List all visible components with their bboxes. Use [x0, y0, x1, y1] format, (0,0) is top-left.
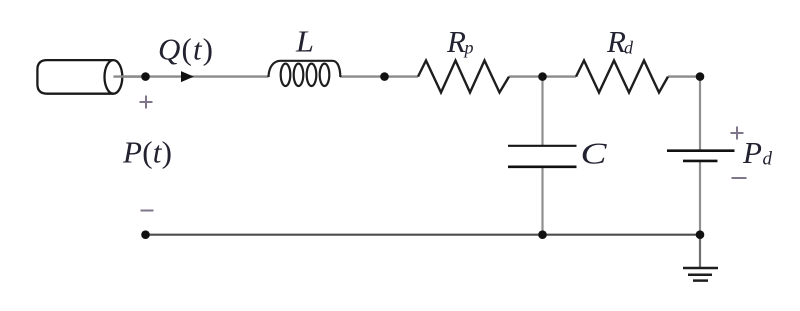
- wire: ground stub: [699, 235, 701, 267]
- battery P_d (short bottom plate): [683, 160, 718, 163]
- resistor R_d (zigzag): [576, 61, 668, 93]
- node D-top: Rd/battery junction: [696, 72, 705, 81]
- flow source cylinder (body): [37, 60, 113, 94]
- node A: source output: [141, 72, 150, 81]
- capacitor C (bottom plate): [508, 166, 577, 169]
- wire: Rp to Rd through node: [509, 75, 576, 77]
- capacitor C (top plate): [508, 145, 577, 147]
- svg-text:Rp: Rp: [446, 24, 473, 59]
- ground (three bars): [683, 268, 718, 281]
- minus sign at P_d: [732, 177, 747, 179]
- wire: battery top vertical: [699, 77, 701, 150]
- arrow: current direction Q(t): [181, 71, 194, 82]
- svg-text:C: C: [581, 136, 607, 171]
- plus sign at P_d: [731, 127, 744, 140]
- svg-text:Pd: Pd: [742, 135, 772, 170]
- svg-text:P(t): P(t): [122, 135, 172, 170]
- resistor R_p (zigzag): [418, 61, 509, 93]
- wire: stub from source ellipse: [113, 75, 145, 77]
- inductor L (coil): [269, 61, 341, 86]
- svg-text:L: L: [295, 24, 314, 59]
- minus sign at P(t): [141, 210, 154, 212]
- node C-top: Rp/Rd/capacitor junction: [538, 72, 547, 81]
- node F-bottom: capacitor to rail: [538, 230, 547, 239]
- node B: between L and Rp: [380, 72, 389, 81]
- svg-text:Q(t): Q(t): [158, 32, 213, 67]
- wire: inductor to Rp: [340, 75, 418, 77]
- node G-bottom: battery/ground junction: [696, 230, 705, 239]
- svg-text:Rd: Rd: [606, 24, 634, 59]
- flow source cylinder (end ellipse): [105, 60, 123, 94]
- wire: capacitor bottom vertical: [541, 167, 543, 235]
- battery P_d (long top plate): [667, 149, 735, 152]
- wire: capacitor top vertical: [541, 77, 543, 145]
- wire: top main from source to inductor: [113, 75, 269, 77]
- wire: Rd to right node: [668, 75, 700, 77]
- wire: bottom return rail: [146, 234, 701, 236]
- node E-bottom: left end of rail: [141, 230, 150, 239]
- wire: battery bottom vertical: [699, 162, 701, 235]
- plus sign at P(t): [140, 96, 153, 109]
